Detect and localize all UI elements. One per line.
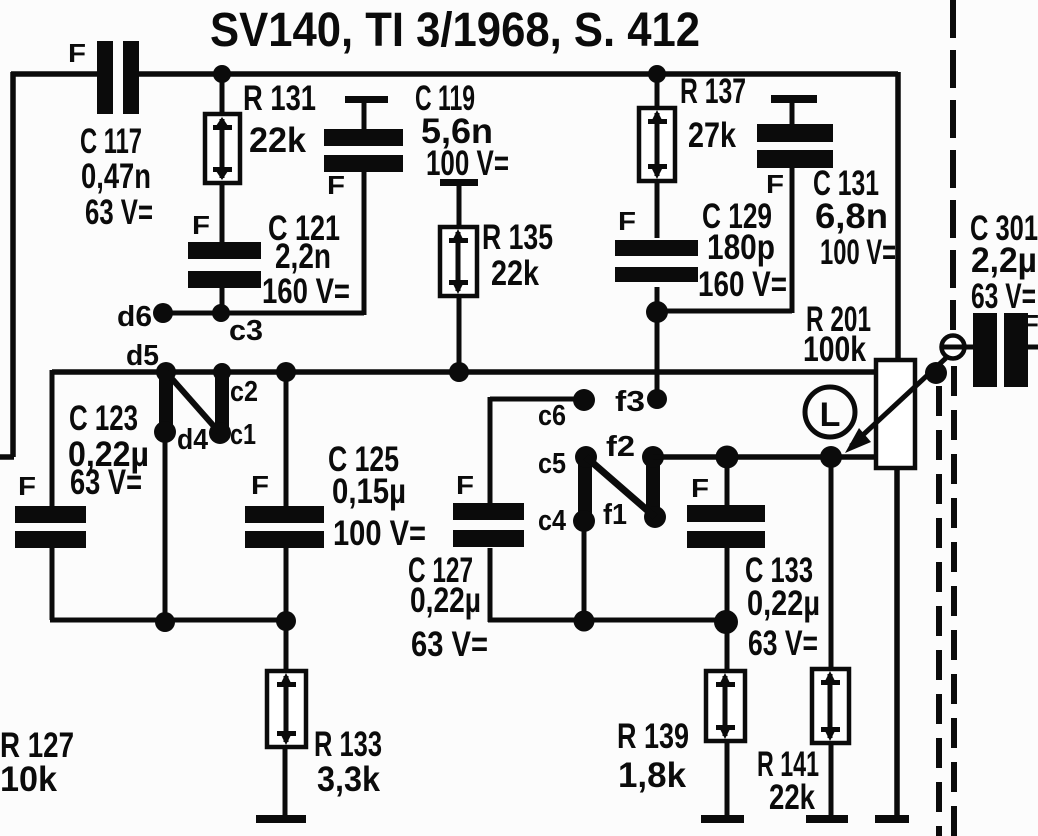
node: dot c4/bottom wire [574, 611, 595, 632]
svg-text:F: F [18, 471, 36, 501]
wire: R135 top lead [457, 185, 462, 227]
svg-text:63 V=: 63 V= [70, 463, 142, 502]
capacitor C117 [68, 38, 153, 232]
svg-text:180p: 180p [707, 228, 775, 267]
switch contact d5-d4 [154, 375, 208, 456]
svg-text:22k: 22k [249, 121, 307, 160]
ground under right bus [875, 815, 909, 823]
capacitor C125 [245, 440, 426, 553]
resistor R133 [267, 671, 382, 799]
svg-text:0,22µ: 0,22µ [747, 584, 820, 623]
svg-text:F: F [192, 210, 210, 240]
ground under R133 [256, 815, 306, 823]
svg-text:160 V=: 160 V= [262, 272, 350, 311]
svg-text:R 131: R 131 [243, 79, 316, 118]
svg-text:c1: c1 [230, 419, 256, 451]
svg-text:d6: d6 [117, 301, 152, 333]
node c3 [212, 304, 263, 347]
capacitor C119 [324, 79, 509, 200]
node: dot C133 top [716, 446, 739, 469]
node d5 [126, 340, 176, 382]
wire: right bus down to R201 top [895, 72, 901, 360]
wire: top bus [11, 71, 898, 77]
capacitor C123 [15, 399, 149, 548]
wire: main middle bus [52, 369, 876, 375]
node d6 [117, 301, 173, 333]
node: dot C125 bottom [276, 611, 296, 631]
node: junction dot top bus / R137 [648, 65, 666, 83]
svg-text:100k: 100k [803, 330, 866, 369]
ground under R139 [701, 815, 744, 823]
node: junction dot top bus / R131 [213, 65, 231, 83]
svg-text:3,3k: 3,3k [317, 760, 380, 799]
wire: d4 down to bottom wire [163, 432, 168, 622]
wire: R135 bottom lead [457, 296, 462, 372]
svg-text:2,2n: 2,2n [275, 237, 331, 276]
svg-text:1,8k: 1,8k [618, 756, 687, 795]
switch bridge d5-c1 [166, 372, 219, 432]
node: dot C133 bottom [714, 610, 738, 634]
svg-text:C 117: C 117 [80, 122, 142, 161]
wire: C127 bottom + bottom middle wire [488, 548, 727, 622]
capacitor C127 [408, 470, 524, 664]
panel dashed line secondary [936, 386, 942, 836]
svg-text:160 V=: 160 V= [698, 265, 787, 304]
wire: C121 to c3 node [220, 288, 225, 313]
wire: R141 to ground [829, 743, 834, 818]
circled L [805, 387, 855, 437]
wire: R201 bottom to ground [894, 468, 900, 818]
wire: R141 top lead [829, 457, 834, 669]
capacitor C131 [757, 95, 896, 272]
svg-text:0,15µ: 0,15µ [332, 472, 406, 511]
svg-text:22k: 22k [769, 778, 815, 817]
svg-text:c5: c5 [538, 448, 566, 480]
terminal bar above R135 [440, 179, 478, 186]
svg-text:F: F [618, 206, 636, 236]
wire: C133 bottom to bottom wire [725, 548, 730, 622]
svg-text:c3: c3 [229, 315, 263, 347]
wire: C129 down through bus to f3 [655, 287, 660, 398]
node c2 [213, 363, 258, 408]
svg-text:100 V=: 100 V= [333, 514, 426, 553]
svg-text:22k: 22k [491, 254, 539, 293]
panel dashed line main [950, 0, 956, 330]
wire: R137 top lead [655, 74, 660, 108]
svg-text:100 V=: 100 V= [820, 233, 896, 272]
switch contact c5-c4 [538, 446, 597, 537]
capacitor C133 [687, 473, 820, 663]
svg-text:63 V=: 63 V= [748, 624, 818, 663]
svg-text:F: F [456, 470, 474, 500]
svg-text:c4: c4 [538, 505, 566, 537]
resistor R135 [440, 218, 553, 296]
svg-text:c2: c2 [230, 376, 258, 408]
wire: c4 down to bottom wire [582, 521, 587, 622]
terminal circle-minus on panel line [941, 336, 973, 359]
svg-text:0,47n: 0,47n [81, 157, 151, 196]
switch contact f2-f1 [603, 431, 666, 531]
svg-text:f1: f1 [603, 499, 627, 531]
svg-text:27k: 27k [688, 116, 736, 155]
wire: d6 - c3 - C119 bottom [163, 171, 364, 315]
svg-text:d4: d4 [177, 424, 208, 456]
svg-text:F: F [251, 470, 269, 500]
node f3 [615, 386, 667, 418]
svg-text:F: F [327, 170, 345, 200]
svg-text:F: F [68, 38, 86, 68]
svg-text:0,22µ: 0,22µ [410, 581, 481, 620]
wire: C123 branch top [50, 370, 55, 506]
resistor R141 [757, 669, 849, 817]
potentiometer R201 [803, 300, 915, 468]
svg-text:d5: d5 [126, 340, 159, 372]
svg-text:2,2µ: 2,2µ [971, 241, 1037, 280]
node: dot C125 top [276, 362, 296, 382]
wire: R133 to ground [283, 747, 288, 818]
wire: C123 bottom + bottom-left wire [50, 548, 290, 620]
svg-text:63 V=: 63 V= [411, 625, 488, 664]
node: dot R135/bus [449, 362, 469, 382]
svg-text:6,8n: 6,8n [815, 197, 888, 236]
resistor R131 [205, 79, 316, 183]
svg-text:R 137: R 137 [680, 72, 746, 111]
svg-text:C 123: C 123 [69, 399, 138, 438]
wire: R133 top lead [284, 621, 289, 671]
svg-text:F: F [691, 473, 709, 503]
resistor R137 [639, 72, 746, 181]
svg-text:R 133: R 133 [314, 725, 382, 764]
resistor R127 label [0, 726, 74, 799]
svg-text:f3: f3 [615, 386, 645, 418]
svg-text:100 V=: 100 V= [426, 144, 509, 183]
svg-text:c6: c6 [538, 400, 566, 432]
wire: R137 to C129 [655, 181, 660, 238]
node: dot R141 top [820, 446, 842, 468]
svg-text:10k: 10k [0, 760, 58, 799]
wire: left edge down to R127 stub [0, 72, 14, 457]
capacitor C121 [188, 209, 350, 311]
svg-text:f2: f2 [606, 431, 635, 463]
capacitor C301 [970, 209, 1038, 387]
capacitor C129 [615, 197, 787, 304]
svg-text:F: F [766, 169, 784, 199]
svg-text:SV140, TI 3/1968, S. 412: SV140, TI 3/1968, S. 412 [210, 4, 700, 57]
wire: R139 to ground [725, 741, 730, 818]
node: dot C129/C131 junction [646, 301, 668, 323]
wire: R131 to C121 [220, 183, 225, 242]
wire: C133 top lead [725, 457, 730, 505]
svg-text:R 135: R 135 [482, 218, 553, 257]
svg-text:R 139: R 139 [617, 717, 689, 756]
wire: C125 bottom lead [284, 548, 289, 622]
switch contact c2-c1 [209, 375, 256, 451]
svg-text:L: L [820, 396, 841, 434]
wiper arrow of R201 [845, 358, 947, 453]
wire: C125 top lead [284, 372, 289, 506]
node c6 and its wire [490, 389, 595, 503]
wire: C131 bottom link [657, 168, 792, 313]
switch bridge c5-f1 [586, 457, 655, 517]
resistor R139 [617, 671, 745, 795]
svg-text:63 V=: 63 V= [971, 277, 1036, 316]
wire: R131 top lead [220, 74, 225, 114]
wire: R139 top lead [725, 621, 730, 671]
wire: f2 to R201 [653, 454, 876, 460]
ground under R141 [806, 815, 848, 823]
node: dot d4 bottom [155, 612, 175, 632]
svg-text:63 V=: 63 V= [85, 193, 153, 232]
